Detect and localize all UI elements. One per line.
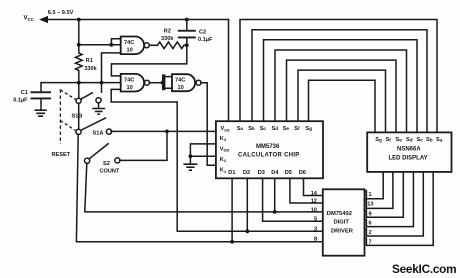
pin 3 label: [314, 227, 317, 233]
svg-text:D1: D1: [228, 170, 235, 176]
wire feedback R2/C2 to U1b top input: [111, 45, 186, 76]
power Vcc arrow and label: [24, 10, 74, 23]
svg-text:VDD: VDD: [220, 146, 230, 152]
wire Vdd and K2 stubs to ground: [190, 144, 216, 156]
svg-text:3: 3: [314, 227, 317, 233]
svg-text:LED DISPLAY: LED DISPLAY: [389, 155, 428, 161]
wire segment loop Sb: [252, 30, 427, 133]
wire S1 mechanical link (dashed): [60, 90, 75, 145]
svg-text:RESET: RESET: [52, 152, 71, 158]
wire R1 bottom node rail: [41, 82, 120, 84]
wire D1 drop: [231, 178, 233, 242]
node D2 junction: [245, 229, 249, 233]
svg-text:Sb: Sb: [426, 137, 433, 143]
resistor R1: [76, 45, 98, 83]
svg-text:D6: D6: [299, 170, 306, 176]
wire segment loop Se: [287, 60, 397, 132]
pin 8 label: [314, 237, 317, 243]
svg-text:10: 10: [311, 207, 317, 213]
ground K2/Vdd: [183, 156, 197, 170]
svg-text:Se: Se: [283, 126, 290, 132]
pin 2 label: [369, 230, 372, 236]
svg-text:74C: 74C: [124, 77, 134, 83]
node Vcc/R1 junction: [77, 18, 81, 22]
IC U2 MM5736 calculator chip: [216, 121, 323, 178]
svg-text:DRIVER: DRIVER: [331, 228, 354, 234]
wire U1c output to chip K1: [201, 83, 216, 166]
pin 13 label: [367, 202, 373, 208]
svg-text:R1: R1: [86, 58, 93, 64]
svg-text:12: 12: [311, 199, 317, 205]
node R1 top: [77, 43, 81, 47]
svg-text:74C: 74C: [124, 40, 134, 46]
svg-text:MM5736: MM5736: [256, 144, 280, 150]
IC U4 NSN66A LED display: [367, 132, 451, 172]
svg-text:D5: D5: [285, 170, 292, 176]
node K2 ground junction: [189, 154, 193, 158]
svg-text:0.1µF: 0.1µF: [13, 98, 28, 104]
wire R1 top node to gate U1a input: [79, 44, 121, 46]
svg-text:D2: D2: [243, 170, 250, 176]
wire D3 drop to pin 5: [263, 178, 323, 221]
svg-text:DIGIT: DIGIT: [334, 219, 350, 225]
svg-text:C1: C1: [21, 90, 28, 96]
svg-text:Sd: Sd: [406, 137, 413, 143]
wire driver pin 7 to display: [365, 172, 434, 246]
NAND gate U1c 74C10: [172, 74, 201, 91]
pin 14 label: [311, 191, 318, 197]
ground C1: [35, 110, 47, 116]
wire U1a output: [149, 44, 157, 46]
wire S2 pole down to digit line: [85, 163, 323, 212]
wire S1A throw to chip K3: [111, 130, 216, 132]
svg-text:COUNT: COUNT: [100, 168, 120, 174]
svg-text:2: 2: [369, 230, 372, 236]
wire U1b bottom input loop to pin3 line: [111, 89, 323, 231]
capacitor C2: [178, 20, 213, 46]
svg-text:1: 1: [369, 192, 372, 198]
pin 10 label: [311, 207, 317, 213]
IC U3 DM75492 digit driver: [323, 189, 365, 255]
wire D4 drop: [274, 178, 276, 212]
svg-text:D3: D3: [258, 170, 265, 176]
pin 12 label: [311, 199, 317, 205]
wire driver pin 13 to display: [365, 172, 393, 209]
svg-text:Sd: Sd: [272, 126, 279, 132]
svg-text:6: 6: [369, 221, 372, 227]
switch S1B: [72, 83, 93, 120]
svg-text:Sg: Sg: [305, 126, 312, 132]
svg-text:0.1µF: 0.1µF: [198, 37, 213, 43]
wire Vss pin to Vcc rail: [228, 20, 230, 122]
capacitor C1: [13, 83, 51, 110]
svg-text:Sf: Sf: [294, 126, 300, 132]
switch S2: [85, 144, 121, 175]
svg-text:330k: 330k: [161, 36, 174, 42]
wire U1c input bar: [162, 74, 172, 90]
switch S1A: [76, 118, 112, 137]
svg-text:Sg: Sg: [375, 137, 382, 143]
pin 5 label: [314, 217, 317, 223]
svg-text:VCC: VCC: [24, 16, 35, 22]
wire S1A pole down to digit line: [76, 134, 322, 241]
svg-text:CALCULATOR CHIP: CALCULATOR CHIP: [238, 153, 300, 159]
pin 7 label: [369, 240, 372, 246]
node S1B throw stub: [100, 81, 104, 85]
svg-text:330k: 330k: [84, 66, 97, 72]
svg-text:S2: S2: [103, 161, 110, 167]
wire segment loop Sg: [309, 80, 376, 132]
svg-text:C2: C2: [199, 29, 206, 35]
svg-text:Sb: Sb: [248, 126, 255, 132]
wire driver pin 2 to display: [365, 172, 424, 236]
node R1 bottom: [77, 81, 81, 85]
svg-text:S1B: S1B: [72, 114, 83, 120]
svg-text:14: 14: [311, 191, 318, 197]
svg-text:R2: R2: [164, 29, 171, 35]
NAND gate U1b 74C10: [121, 74, 150, 92]
watermark SeekIC.com: [392, 262, 456, 276]
svg-text:7: 7: [369, 240, 372, 246]
wire D2 drop: [246, 178, 248, 231]
wire driver pin 6 to display: [365, 172, 414, 227]
svg-text:Sa: Sa: [436, 137, 443, 143]
svg-text:10: 10: [127, 85, 133, 91]
node S1A/S2 tie: [165, 130, 169, 134]
svg-text:10: 10: [127, 48, 133, 54]
node D4 junction: [273, 210, 277, 214]
wire segment loop Sf: [298, 70, 386, 132]
wire D5 drop to pin 12: [290, 178, 323, 203]
pin 9 label: [369, 211, 372, 217]
svg-text:8: 8: [314, 237, 317, 243]
node R2/C2 junction: [185, 43, 189, 47]
label RESET: [52, 152, 71, 158]
svg-text:Sf: Sf: [386, 137, 392, 143]
svg-text:10: 10: [178, 85, 184, 91]
wire segment loop Sa: [240, 20, 437, 133]
svg-text:S1A: S1A: [93, 131, 104, 137]
svg-text:SeekIC.com: SeekIC.com: [392, 262, 456, 276]
node U1c input tie: [161, 81, 165, 85]
svg-text:9: 9: [369, 211, 372, 217]
wire S1B pole to S1A pole: [78, 103, 80, 129]
ground S1B throw: [92, 98, 105, 114]
wire D6 drop to pin 14: [304, 178, 323, 195]
svg-text:NSN66A: NSN66A: [397, 147, 421, 153]
svg-text:5: 5: [314, 217, 317, 223]
svg-text:DM75492: DM75492: [327, 211, 352, 217]
wire tie down to S2: [120, 131, 167, 160]
svg-text:74C: 74C: [175, 77, 185, 83]
svg-text:K1: K1: [220, 168, 227, 174]
wire Vcc rail: [46, 19, 229, 21]
svg-text:D4: D4: [271, 170, 279, 176]
svg-text:Sc: Sc: [260, 126, 267, 132]
wire driver pin 9 to display: [365, 172, 404, 217]
wire stub to S1B throw contact: [101, 83, 103, 93]
svg-text:Se: Se: [396, 137, 403, 143]
pin 6 label: [369, 221, 372, 227]
svg-text:VSS: VSS: [221, 126, 230, 132]
svg-text:6.5 – 9.5V: 6.5 – 9.5V: [48, 10, 74, 16]
svg-text:Sc: Sc: [417, 137, 424, 143]
node D1 junction: [230, 240, 234, 244]
wire Vcc drop to R1 top node: [78, 20, 80, 45]
svg-text:13: 13: [367, 202, 373, 208]
wire segment loop Sc: [264, 40, 418, 133]
wire U1a input tie bar: [111, 39, 120, 45]
wire U1a bottom input loop to R1 bottom rail: [102, 53, 121, 83]
node gate U1a input tie: [110, 43, 114, 47]
wire U1b output to U1c: [150, 82, 163, 84]
node Vcc/C2 junction: [185, 18, 189, 22]
pin 1 label: [369, 192, 372, 198]
resistor R2: [158, 29, 187, 49]
svg-text:Sa: Sa: [237, 126, 244, 132]
svg-text:K2: K2: [220, 157, 227, 163]
wire driver pin 1 to display: [365, 172, 384, 199]
NAND gate U1a 74C10: [121, 37, 150, 55]
wire segment loop Sd: [275, 50, 407, 132]
svg-text:K3: K3: [220, 136, 227, 142]
